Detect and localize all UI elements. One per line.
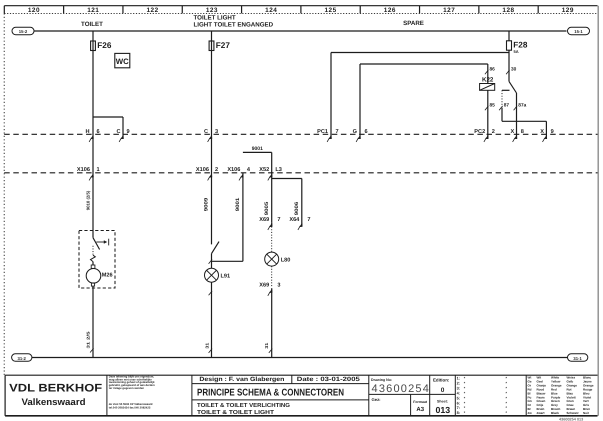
svg-text:H: H (85, 129, 89, 135)
svg-text:5:: 5: (457, 396, 460, 400)
svg-text:122: 122 (147, 7, 159, 14)
svg-text:9001: 9001 (252, 146, 263, 152)
svg-text:G: G (353, 129, 357, 135)
svg-text:Gez:: Gez: (372, 397, 381, 402)
svg-text:X64: X64 (289, 217, 300, 223)
svg-text:TOILET: TOILET (81, 21, 103, 28)
svg-text:X106: X106 (227, 167, 240, 173)
svg-text:9005: 9005 (264, 201, 270, 215)
svg-text:Date : 03-01-2005: Date : 03-01-2005 (297, 376, 361, 383)
svg-text:LIGHT TOILET ENGANGED: LIGHT TOILET ENGANGED (194, 21, 274, 28)
svg-text:9: 9 (551, 129, 554, 135)
svg-text:125: 125 (324, 7, 336, 14)
svg-text:Edition:: Edition: (433, 377, 450, 382)
svg-text:3: 3 (215, 129, 218, 135)
svg-text:9: 9 (127, 129, 130, 135)
svg-text:127: 127 (443, 7, 455, 14)
svg-text:TOILET & TOILET LIGHT: TOILET & TOILET LIGHT (197, 409, 275, 416)
svg-text:TOILET LIGHT: TOILET LIGHT (194, 14, 236, 21)
svg-text:15-1: 15-1 (574, 29, 583, 34)
svg-text:43600254: 43600254 (372, 383, 431, 395)
svg-text:87a: 87a (518, 103, 526, 109)
svg-text:2:: 2: (457, 382, 460, 386)
svg-text:120: 120 (28, 7, 40, 14)
svg-text:TOILET & TOILET VERLICHTING: TOILET & TOILET VERLICHTING (197, 402, 290, 409)
svg-text:31: 31 (264, 342, 269, 349)
svg-text:126: 126 (384, 7, 396, 14)
svg-text:86: 86 (490, 66, 496, 72)
svg-text:PRINCIPE SCHEMA & CONNECTOREN: PRINCIPE SCHEMA & CONNECTOREN (197, 388, 344, 399)
svg-text:K22: K22 (482, 76, 494, 83)
svg-text:0: 0 (441, 387, 445, 394)
svg-text:WC: WC (116, 57, 129, 66)
svg-text:F27: F27 (216, 41, 231, 50)
svg-text:129: 129 (562, 7, 574, 14)
svg-text:8:: 8: (457, 411, 460, 415)
svg-text:9010 (2/5): 9010 (2/5) (86, 190, 91, 210)
svg-text:Schwarz: Schwarz (567, 411, 580, 415)
svg-text:X106: X106 (196, 167, 209, 173)
svg-text:PC1: PC1 (317, 129, 328, 135)
svg-text:7: 7 (277, 217, 280, 223)
svg-text:Drawing No:: Drawing No: (371, 378, 392, 382)
svg-text:30: 30 (511, 66, 517, 72)
svg-text:6: 6 (365, 129, 368, 135)
svg-text:31: 31 (204, 342, 209, 349)
svg-text:15-2: 15-2 (19, 29, 28, 34)
svg-text:X106: X106 (77, 167, 90, 173)
svg-text:124: 124 (265, 7, 277, 14)
svg-text:3: 3 (277, 283, 280, 289)
svg-text:87: 87 (504, 103, 510, 109)
svg-text:SPARE: SPARE (403, 20, 424, 27)
svg-text:Formaat: Formaat (413, 400, 428, 404)
svg-text:121: 121 (87, 7, 99, 14)
svg-text:5A: 5A (514, 49, 519, 54)
svg-text:C: C (204, 129, 208, 135)
svg-text:9006: 9006 (294, 201, 300, 215)
svg-text:F26: F26 (97, 41, 112, 50)
svg-text:X: X (510, 129, 514, 135)
svg-text:1: 1 (97, 167, 100, 173)
svg-text:A3: A3 (416, 406, 424, 413)
svg-text:4:: 4: (457, 391, 460, 395)
svg-text:X: X (540, 129, 544, 135)
svg-text:Zwart: Zwart (537, 411, 545, 415)
svg-text:Valkenswaard: Valkenswaard (22, 396, 86, 407)
svg-text:L80: L80 (281, 257, 291, 263)
svg-text:123: 123 (206, 7, 218, 14)
svg-text:M26: M26 (102, 272, 113, 278)
svg-text:8: 8 (521, 129, 524, 135)
svg-text:Design : F. van Glabergen: Design : F. van Glabergen (199, 376, 284, 383)
svg-text:ter inzage gegeven worden: ter inzage gegeven worden (109, 387, 145, 390)
svg-text:VDL BERKHOF: VDL BERKHOF (9, 382, 102, 394)
svg-text:PC2: PC2 (474, 129, 485, 135)
svg-text:128: 128 (502, 7, 514, 14)
svg-text:2: 2 (492, 129, 495, 135)
svg-text:1:: 1: (457, 377, 460, 381)
svg-text:43600254 013: 43600254 013 (559, 417, 583, 421)
svg-text:Black: Black (551, 411, 559, 415)
svg-text:X52: X52 (259, 167, 269, 173)
svg-text:C: C (116, 129, 120, 135)
svg-text:7:: 7: (457, 406, 460, 410)
svg-text:31 2/5: 31 2/5 (85, 330, 90, 348)
svg-text:31-2: 31-2 (18, 356, 27, 361)
svg-text:X69: X69 (259, 283, 269, 289)
svg-text:31-1: 31-1 (573, 356, 582, 361)
svg-text:L91: L91 (221, 274, 231, 280)
svg-text:7: 7 (336, 129, 339, 135)
svg-text:85: 85 (490, 103, 496, 109)
svg-text:X69: X69 (259, 217, 269, 223)
svg-text:6:: 6: (457, 401, 460, 405)
svg-text:3:: 3: (457, 386, 460, 390)
svg-text:9009: 9009 (204, 197, 210, 211)
svg-text:Sheet:: Sheet: (437, 400, 448, 404)
svg-text:7: 7 (307, 217, 310, 223)
svg-text:Zw: Zw (528, 411, 533, 415)
svg-text:2: 2 (215, 167, 218, 173)
svg-text:9001: 9001 (235, 197, 241, 211)
svg-text:tel.040 2082424 fax.040 20824: tel.040 2082424 fax.040 2082425 (109, 407, 151, 410)
svg-text:6: 6 (97, 129, 100, 135)
svg-text:013: 013 (435, 405, 450, 415)
svg-text:Noir: Noir (583, 411, 590, 415)
svg-text:L3: L3 (275, 167, 282, 173)
